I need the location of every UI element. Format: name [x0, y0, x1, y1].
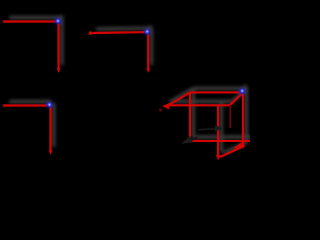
wire S1 horizontal shaft [6, 20, 58, 22]
wire S3 horizontal shaft [6, 104, 49, 106]
arrowhead S3 down tip [49, 151, 53, 156]
wire box back-left vertical A-A' [189, 92, 191, 140]
wire box top-back edge A-B [190, 91, 244, 93]
wire box front-top edge with left arrow [162, 103, 230, 109]
arrowhead S2 down tip [146, 69, 150, 74]
arrowhead box diagonal big tip [233, 142, 245, 149]
arrowhead S2 left tip [89, 31, 93, 35]
arrowhead box down arrow tip [216, 155, 221, 160]
wire box depth edge B-C [230, 92, 244, 104]
wire S3 vertical shaft [49, 107, 51, 152]
arrowhead S3 left tip [3, 104, 7, 107]
wire box front-right vertical C-C' dim [229, 105, 231, 128]
arrowhead S1 left tip [3, 20, 7, 23]
node A blue junction dot S1 [54, 18, 61, 25]
wire box depth edge A-D [170, 92, 191, 104]
wire S2 horizontal shaft [93, 31, 147, 34]
ghost echo of all red strokes (offset up-right gray halo) [9, 15, 253, 153]
node D blue junction dot box corner B [239, 88, 246, 95]
node C blue junction dot S3 [46, 101, 53, 108]
node B blue junction dot S2 [144, 28, 151, 35]
arrowhead S1 down tip [57, 69, 61, 74]
wire S1 vertical shaft [57, 23, 59, 70]
wire box bottom-back edge A'-edge [190, 140, 250, 142]
wire box back-right vertical B-B' [242, 92, 244, 146]
wire box down arrow shaft [217, 105, 219, 157]
wire box diagonal B'-D' shaft [220, 146, 244, 157]
arrow black BA1 right-pointing inside box [199, 125, 224, 131]
node dim red speck left of box [159, 108, 162, 111]
arrow black BA2 down-left at A' [181, 136, 198, 144]
wire S2 vertical shaft [147, 33, 149, 70]
